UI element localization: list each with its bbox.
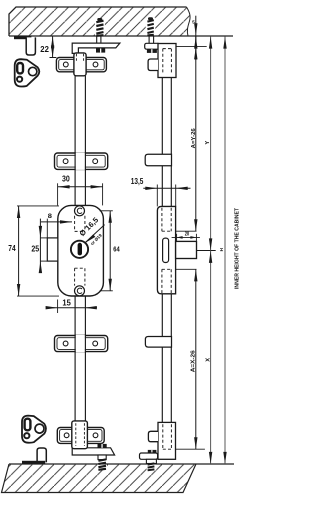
keeper ring top bbox=[17, 77, 22, 82]
keyhole cylinder bbox=[71, 241, 88, 258]
lock body bbox=[58, 205, 104, 296]
right rod lower segment bbox=[162, 294, 171, 423]
dimension Y bbox=[205, 37, 213, 251]
hidden rod in saddle (dashed) bbox=[75, 54, 77, 61]
dimension 15 bbox=[46, 297, 97, 313]
catch tab upper on right rod bbox=[145, 154, 171, 166]
bracket B1 screw hole left bbox=[63, 62, 68, 67]
rod over bracket B3 bbox=[76, 335, 85, 352]
strike hook top-left bbox=[26, 37, 35, 55]
bracket B1 saddle bbox=[74, 53, 86, 76]
dimension X bbox=[205, 251, 212, 464]
connector block top-right bbox=[158, 44, 176, 78]
hidden rod end upper in housing (dashed) bbox=[162, 208, 171, 293]
svg-text:A=Y-26: A=Y-26 bbox=[191, 128, 197, 148]
screw top-right (threads into panel) bbox=[146, 17, 156, 43]
bottom arm of left rod bbox=[72, 448, 114, 455]
strike plate bar top-left bbox=[14, 36, 31, 39]
svg-text:30: 30 bbox=[62, 173, 70, 183]
washer bottom-right bbox=[146, 459, 156, 463]
keeper hole bottom bbox=[35, 424, 44, 433]
svg-text:20: 20 bbox=[185, 232, 190, 238]
hidden rod end upper (dashed) bbox=[75, 216, 85, 286]
left flat rod upper segment bbox=[75, 76, 85, 206]
bracket B4 saddle bbox=[72, 421, 88, 449]
nut top-right bbox=[147, 49, 157, 53]
dimension H / inner height bbox=[219, 37, 240, 464]
nut over bottom arm bbox=[98, 444, 107, 448]
hidden rod end in block 2 (dashed) bbox=[163, 424, 172, 449]
catch tab lower on right rod bbox=[145, 337, 171, 348]
strike plate bar bottom-left bbox=[22, 461, 45, 464]
svg-text:25: 25 bbox=[31, 243, 39, 253]
rod guide bracket B4 (bottom left) bbox=[57, 421, 114, 455]
svg-text:5: 5 bbox=[192, 20, 195, 26]
knob bottom-right bbox=[148, 431, 158, 441]
keeper part top-left (side view) bbox=[15, 59, 40, 86]
dimension 22 bbox=[40, 36, 56, 58]
connector block bottom-right bbox=[158, 422, 176, 459]
svg-text:Y: Y bbox=[205, 141, 211, 145]
dimension 8 bbox=[41, 213, 72, 238]
dimension 13,5 bbox=[131, 176, 191, 207]
side bolt on lock bbox=[47, 238, 58, 261]
svg-text:22: 22 bbox=[40, 44, 49, 54]
housing slot bbox=[163, 238, 169, 262]
dimension 64 bbox=[100, 211, 121, 291]
keeper part bottom-left (side view) bbox=[22, 416, 46, 443]
dimension 5 (top right) bbox=[176, 16, 207, 60]
dimension 20 bbox=[172, 232, 200, 242]
foot plate bottom-right bbox=[140, 453, 158, 459]
latch slider housing bbox=[157, 206, 175, 293]
top reference line (underside of top panel) bbox=[9, 35, 233, 37]
latch box bbox=[176, 241, 197, 258]
lock bottom screw bbox=[75, 286, 85, 296]
screw top-left (threads into panel) bbox=[95, 18, 105, 43]
lock top screw bbox=[75, 206, 85, 216]
dimension 25 bbox=[31, 219, 47, 274]
leader line for diameter bbox=[85, 225, 105, 243]
bottom panel (cabinet bottom, hatched) bbox=[2, 464, 197, 493]
hidden rod end in block (dashed) bbox=[163, 49, 172, 74]
svg-text:74: 74 bbox=[8, 243, 16, 253]
hidden rod end lower (dashed) bbox=[74, 268, 76, 285]
hidden rod in saddle B4 (dashed) bbox=[75, 423, 77, 446]
keeper slot bottom bbox=[25, 419, 31, 431]
svg-text:X: X bbox=[205, 358, 211, 362]
bottom reference line (top of bottom panel) bbox=[9, 463, 234, 465]
top panel (cabinet top, hatched) bbox=[9, 7, 190, 36]
left rod lower segment bbox=[75, 296, 85, 421]
screw bottom-right (threads into panel) bbox=[147, 463, 157, 470]
hidden rod end lower in housing (dashed) bbox=[161, 269, 163, 293]
strike hook bottom-left bbox=[37, 448, 46, 462]
screw shank top-right bbox=[148, 35, 150, 43]
latch centerline extension bbox=[197, 250, 216, 252]
dimension 74 bbox=[8, 206, 59, 296]
right flat rod upper segment bbox=[162, 78, 171, 207]
block top extension line bbox=[176, 46, 207, 48]
svg-text:A=X-26: A=X-26 bbox=[191, 350, 197, 372]
keeper ring bottom bbox=[24, 433, 29, 438]
top arm of left rod bbox=[72, 43, 120, 53]
rod guide bracket B1 (top left) bbox=[56, 53, 106, 76]
keeper hole top bbox=[29, 67, 37, 75]
dimension A=Y-26 (upper right) bbox=[176, 36, 198, 231]
svg-text:15: 15 bbox=[62, 297, 71, 307]
svg-text:INNER HEIGHT OF THE CABINET: INNER HEIGHT OF THE CABINET bbox=[234, 208, 240, 289]
svg-text:8: 8 bbox=[48, 213, 52, 220]
svg-text:13,5: 13,5 bbox=[131, 176, 144, 186]
nut under arm bbox=[96, 49, 105, 53]
nut bottom-right bbox=[148, 450, 157, 453]
rod over bracket B2 bbox=[76, 153, 85, 170]
svg-text:64: 64 bbox=[113, 244, 120, 253]
dimension A=X-26 (lower right) bbox=[175, 269, 205, 449]
screw shank top-left bbox=[96, 36, 98, 44]
dimension 30 bbox=[58, 173, 103, 205]
knob top-right bbox=[148, 59, 158, 71]
rod guide bracket B3 (left, mid-lower) bbox=[55, 335, 108, 353]
rod guide bracket B2 (left, mid-upper) bbox=[55, 152, 108, 170]
screw bottom-left (threads into panel) bbox=[98, 455, 107, 470]
foot plate top-right bbox=[145, 43, 160, 49]
keeper slot top bbox=[17, 63, 23, 73]
bracket B1 screw hole right bbox=[93, 62, 98, 67]
key slot bbox=[78, 243, 82, 256]
